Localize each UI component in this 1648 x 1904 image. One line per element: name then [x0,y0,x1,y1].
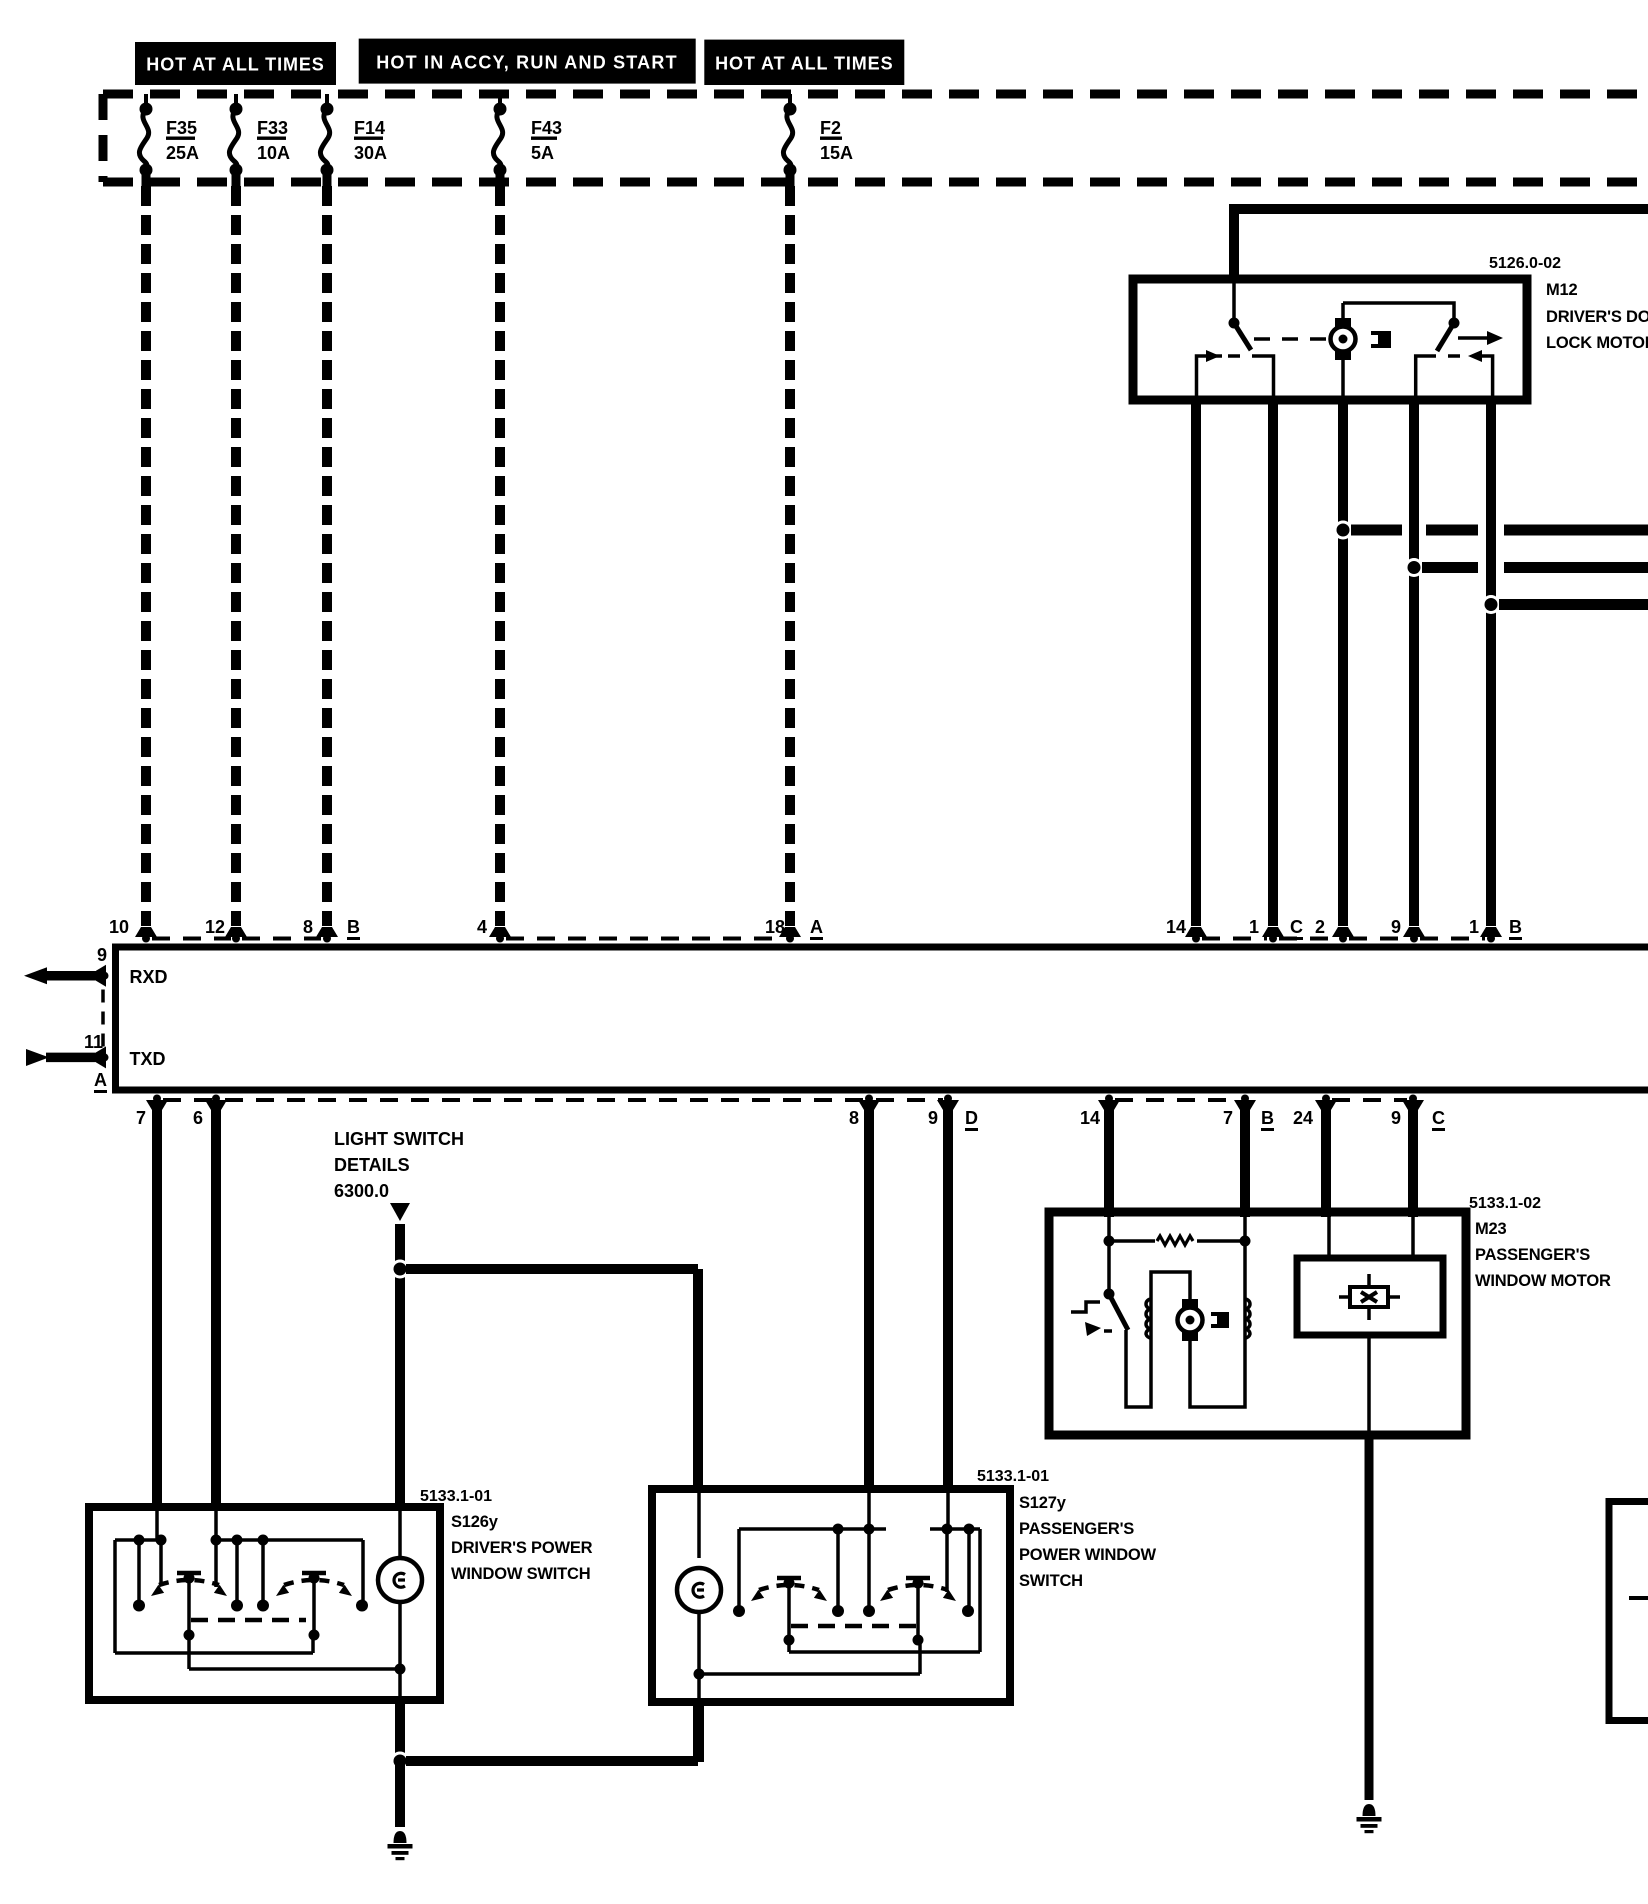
svg-text:25A: 25A [166,143,199,163]
door lock motor module M12 box [1133,279,1527,400]
M23 internal: armature loop right [1190,1246,1245,1407]
svg-text:5133.1-01: 5133.1-01 [977,1468,1049,1485]
wire: module pin 8 down [858,1095,880,1494]
module bottom connector letters (underlined) [965,1108,1445,1131]
M23 internal: field coil right [1245,1299,1250,1338]
svg-text:12: 12 [205,917,225,937]
wire: M23 to ground [1365,1435,1374,1800]
M23 internal: thermal contact [1071,1302,1116,1336]
svg-text:B: B [347,917,360,937]
M12 internal: wire motor top to right switch pivot [1343,303,1454,318]
S126y internal: contact drop wires [139,1540,363,1603]
svg-text:F14: F14 [354,118,385,138]
module top pin labels [109,917,1479,937]
svg-text:9: 9 [1391,1108,1401,1128]
node: junction door lock bus 1 [1334,521,1353,540]
S126y internal: pin 7 stub [155,1511,159,1540]
svg-text:7: 7 [1223,1108,1233,1128]
svg-text:2: 2 [1315,917,1325,937]
svg-text:SWITCH: SWITCH [1019,1572,1083,1590]
svg-text:14: 14 [1080,1108,1100,1128]
svg-text:1: 1 [1249,917,1259,937]
M12 internal: left contact staple [1197,350,1274,400]
svg-text:C: C [1290,917,1303,937]
svg-text:LOCK MOTOR: LOCK MOTOR [1546,334,1648,352]
S127y internal: top rail right segment [930,1524,980,1535]
S127y internal: contact drop wires [739,1529,969,1608]
node: ground junction [391,1752,410,1771]
wire: bus line 3 to right edge [1499,599,1648,610]
M23 internal: sensor element (rect with X) [1339,1274,1400,1320]
svg-text:5133.1-02: 5133.1-02 [1469,1195,1541,1212]
wire: ground return from passenger switch [406,1702,698,1761]
S127y internal: rocker switch 2 [863,1578,974,1646]
svg-text:10A: 10A [257,143,290,163]
fuse F43 5A [493,94,562,186]
svg-text:24: 24 [1293,1108,1313,1128]
svg-text:M23: M23 [1475,1220,1507,1238]
svg-text:7: 7 [136,1108,146,1128]
wire: module pin 7 down [1234,1095,1256,1218]
svg-text:S127y: S127y [1019,1494,1067,1512]
svg-text:A: A [94,1070,107,1090]
wire: M12 to module pin 2 [1332,400,1354,943]
module bottom pin labels [136,1108,1401,1128]
S126y internal: rocker1 common to lamp node [189,1635,396,1669]
svg-text:11: 11 [84,1032,103,1052]
passenger window motor M23 box [1049,1212,1466,1435]
svg-text:HOT AT ALL TIMES: HOT AT ALL TIMES [715,54,893,74]
wire: module pin 9 down [1402,1095,1424,1218]
S126y internal: pin 6 stub [214,1511,218,1540]
wire: module pin 9 down [937,1095,959,1494]
svg-text:RXD: RXD [130,967,168,987]
module connector dashed strip (bottom) [163,1098,1407,1102]
fuse F35 25A [139,94,199,186]
fuse F14 30A [320,94,387,186]
control module box (general module) [116,947,1648,1090]
M23 internal: armature loop left [1126,1272,1190,1407]
M12 internal: dashed link switch to motor [1254,337,1330,341]
svg-text:F2: F2 [820,118,841,138]
S127y labels [977,1468,1157,1590]
svg-text:8: 8 [849,1108,859,1128]
svg-text:F43: F43 [531,118,562,138]
fuse F33 10A [229,94,290,186]
S126y internal: top rail right segment [211,1535,364,1546]
svg-text:F35: F35 [166,118,197,138]
S127y internal: top rail [739,1524,886,1535]
wire: lamp feed loop to passenger switch [406,1269,698,1493]
svg-text:DRIVER'S POWER: DRIVER'S POWER [451,1539,593,1557]
M23 internal: thermal protector block [1211,1312,1229,1328]
M12 internal: feed wire to switch pivot [1229,283,1240,329]
wire: S126y lamp to ground node [395,1696,405,1761]
wire: module pin 24 down [1315,1095,1337,1218]
svg-text:18: 18 [765,917,785,937]
wire: M12 to module pin 9 [1403,400,1425,943]
svg-text:9: 9 [97,945,107,965]
wire: module pin 6 down [205,1095,227,1512]
wire: bus line 2 to right edge [1422,562,1648,573]
S127y internal: mechanical link (dashed) [791,1624,916,1629]
svg-text:LIGHT SWITCH: LIGHT SWITCH [334,1129,464,1149]
svg-text:DRIVER'S DOOR: DRIVER'S DOOR [1546,308,1648,326]
wire: fuse feed to module pin 18 (dashed) [779,186,801,943]
fuse F2 15A [783,94,853,186]
node: junction door lock bus 3 [1482,595,1501,614]
svg-text:15A: 15A [820,143,853,163]
M23 internal: sensor output wire [1367,1335,1371,1431]
S127y internal: rocker2 common to lamp node [699,1640,920,1674]
M23 internal: field coil left [1146,1299,1151,1338]
svg-text:5133.1-01: 5133.1-01 [420,1488,492,1505]
S126y internal: top rail left segment [115,1535,167,1546]
svg-text:S126y: S126y [451,1513,499,1531]
svg-text:30A: 30A [354,143,387,163]
S127y internal: rocker switch 1 [733,1578,844,1646]
svg-text:WINDOW SWITCH: WINDOW SWITCH [451,1565,590,1583]
S127y internal: rocker1 common loop to pin rail [789,1529,980,1652]
S126y internal: mechanical link (dashed) [191,1618,306,1623]
wire: M12 to module pin 1 [1262,400,1284,943]
M12 internal: thermal protector block [1371,331,1391,348]
S127y internal: pin 9 stub [946,1493,950,1529]
M23 internal: motor M [1178,1299,1203,1341]
svg-text:DETAILS: DETAILS [334,1155,410,1175]
M12 internal: left switch arm [1234,323,1251,350]
wire: battery feed to driver door lock motor (top right) [1234,204,1648,283]
svg-text:6: 6 [193,1108,203,1128]
S126y internal: inner frame left/bottom [115,1540,313,1653]
wire: fuse feed to module pin 8 (dashed) [316,186,338,943]
module connector dashed strip (top) [152,937,1485,941]
svg-text:B: B [1509,917,1522,937]
module pin 11 TXD input arrow [26,1032,166,1069]
svg-text:5A: 5A [531,143,554,163]
S126y internal: illumination lamp [378,1511,422,1696]
wire: M12 to module pin 14 [1185,400,1207,943]
wire: module pin 14 down [1098,1095,1120,1218]
off-page arrow from light switch [390,1203,410,1221]
light switch details note [334,1129,464,1201]
svg-text:5126.0-02: 5126.0-02 [1489,255,1561,272]
passenger's power window switch S127y box [652,1489,1010,1702]
M12 labels [1489,255,1648,352]
node: junction door lock bus 2 [1405,558,1424,577]
power label box: HOT AT ALL TIMES (left) [135,42,336,85]
svg-text:10: 10 [109,917,129,937]
svg-text:A: A [810,917,823,937]
M23 labels [1469,1195,1611,1290]
svg-text:PASSENGER'S: PASSENGER'S [1475,1246,1590,1264]
ground G (passenger window motor) [1357,1804,1382,1833]
M12 internal: right switch pivot and arm [1437,318,1460,352]
svg-text:POWER WINDOW: POWER WINDOW [1019,1546,1157,1564]
module left connector dashed line [101,990,105,1050]
ground G (power window switches) [388,1831,413,1860]
svg-text:WINDOW MOTOR: WINDOW MOTOR [1475,1272,1611,1290]
wire: to ground G (driver switch) [395,1761,405,1827]
partial component box (clipped at right edge) [1609,1502,1648,1721]
driver's power window switch S126y box [89,1507,440,1700]
M12 internal: right switch arrow [1458,331,1503,345]
fuse box (dashed outline, open to the right) [103,94,1648,182]
svg-text:9: 9 [928,1108,938,1128]
wire: module pin 7 down [146,1095,168,1512]
S126y internal: rocker switch 1 [133,1573,243,1641]
S126y internal: rocker switch 2 [257,1573,368,1641]
S126y labels [420,1488,593,1583]
wire: fuse feed to module pin 10 (dashed) [135,186,157,943]
svg-text:D: D [965,1108,978,1128]
S127y internal: pin 8 stub [867,1493,871,1529]
power label box: HOT IN ACCY, RUN AND START [359,39,696,84]
node: lamp feed junction [391,1260,410,1279]
S127y internal: illumination lamp [677,1493,721,1698]
wire: light switch to driver window switch [395,1224,405,1511]
svg-text:9: 9 [1391,917,1401,937]
wire: bus line 1 to right edge [1351,525,1648,536]
svg-text:B: B [1261,1108,1274,1128]
svg-text:4: 4 [477,917,487,937]
svg-text:8: 8 [303,917,313,937]
svg-text:HOT AT ALL TIMES: HOT AT ALL TIMES [146,55,324,75]
M12 internal: motor M [1331,303,1356,400]
module left connector letter A (underlined) [94,1070,107,1093]
svg-text:M12: M12 [1546,281,1578,299]
wire: fuse feed to module pin 12 (dashed) [225,186,247,943]
svg-text:C: C [1432,1108,1445,1128]
module top connector letters (underlined) [347,917,1522,940]
M23 internal: switch pivot [1104,1241,1129,1330]
svg-text:6300.0: 6300.0 [334,1181,389,1201]
svg-text:14: 14 [1166,917,1186,937]
wire: S127y lamp circuit down to ground loop [694,1702,704,1762]
power label box: HOT AT ALL TIMES (right) [704,40,904,85]
svg-text:1: 1 [1469,917,1479,937]
svg-text:HOT IN ACCY, RUN AND START: HOT IN ACCY, RUN AND START [376,53,678,73]
module pin 9 RXD output arrow [24,945,168,987]
svg-text:F33: F33 [257,118,288,138]
M23 internal: top rail with resistor [1104,1217,1251,1247]
M12 internal: right contact staple [1416,350,1493,400]
wire: fuse feed to module pin 4 (dashed) [489,186,511,943]
svg-text:PASSENGER'S: PASSENGER'S [1019,1520,1134,1538]
svg-text:TXD: TXD [130,1049,166,1069]
wire: M12 to module pin 1 [1480,400,1502,943]
M23 internal: position sensor box [1297,1217,1443,1335]
